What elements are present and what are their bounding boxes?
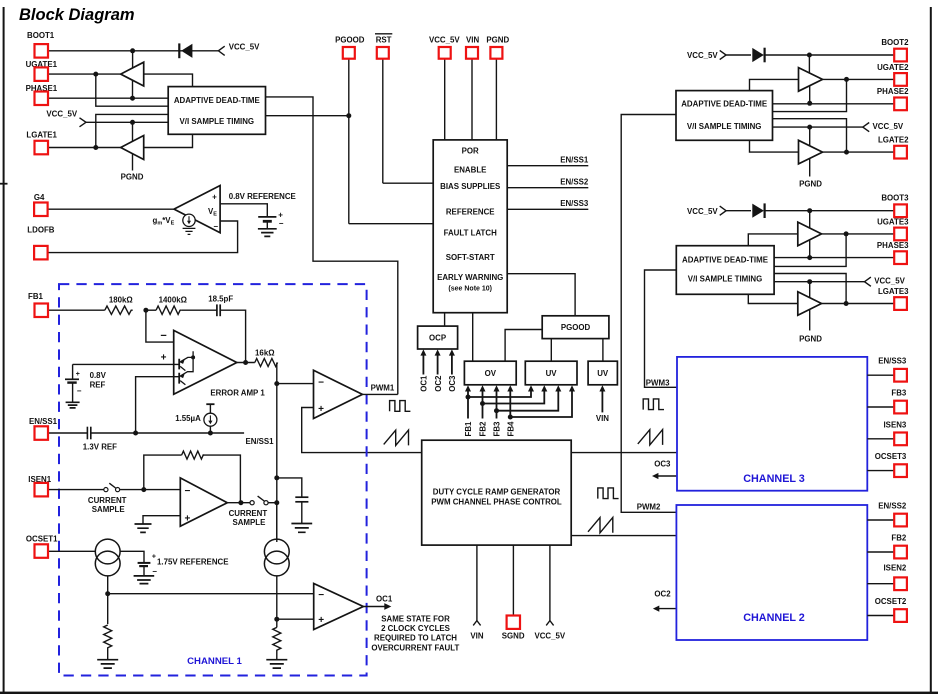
svg-text:VCC_5V: VCC_5V (687, 207, 718, 216)
channel 1 dashed boundary (59, 284, 367, 675)
arrow VIN into UV block (596, 385, 609, 423)
diode D2 boot (726, 48, 765, 63)
svg-text:−: − (152, 567, 157, 576)
arrow OC2 out of channel2 (653, 590, 677, 612)
wire to PWM1 comparator minus (277, 383, 314, 385)
supply stub VIN below duty block (470, 545, 483, 640)
net EN/SS1 output (507, 156, 589, 166)
wire UGATE1 feedback into dead-time1 (96, 74, 168, 106)
wire error amp output node chain (237, 362, 255, 364)
wire driver3 lower input (748, 294, 798, 303)
svg-text:OC3: OC3 (448, 375, 457, 392)
buffer upper gate driver 3 (798, 222, 822, 246)
pin UGATE1 (26, 60, 121, 81)
svg-text:1.3V REF: 1.3V REF (83, 443, 117, 452)
pin EN/SS3 (867, 357, 907, 382)
wire PHASE3 to driver3 bottom (809, 240, 811, 258)
svg-text:BIAS SUPPLIES: BIAS SUPPLIES (440, 182, 500, 191)
svg-text:RST: RST (376, 35, 392, 44)
icon square wave pwm3 (643, 399, 664, 410)
svg-text:PWM CHANNEL PHASE CONTROL: PWM CHANNEL PHASE CONTROL (431, 498, 562, 507)
transistor pair clamp inside error amp (179, 351, 195, 385)
wire RST pin to POR bias supplies (383, 182, 433, 184)
pin FB1 (28, 292, 105, 317)
block U_UV_VIN (588, 361, 617, 385)
pin UGATE3 (822, 217, 910, 240)
wire BOOT1 to driver top (132, 51, 134, 69)
wire OCSET source to 1.75V reference (120, 551, 144, 563)
block U_DUTY (duty cycle ramp generator) (422, 440, 572, 545)
svg-text:SAMPLE: SAMPLE (232, 518, 265, 527)
supply chevron VCC_5V boot2 (687, 50, 726, 60)
svg-text:BOOT3: BOOT3 (881, 194, 909, 203)
net EN/SS3 output (507, 199, 589, 209)
svg-text:FB1: FB1 (464, 421, 473, 437)
wire PGOOD block to UV vin block (602, 339, 604, 362)
svg-text:180kΩ: 180kΩ (109, 296, 133, 305)
supply chevron VCC_5V lower driver2 (863, 122, 904, 132)
pin OCSET3 (867, 452, 907, 477)
arrow OC1 into OCP (420, 349, 429, 391)
svg-text:EN/SS3: EN/SS3 (878, 357, 907, 366)
net OCSET1 comparator minus row (107, 576, 109, 624)
svg-text:−: − (77, 386, 82, 395)
pin VIN (top) (466, 35, 479, 140)
svg-text:SAME STATE FOR: SAME STATE FOR (381, 614, 450, 623)
node UGATE2 junction (844, 77, 849, 82)
resistor 1400k (156, 296, 187, 315)
svg-text:V/I SAMPLE TIMING: V/I SAMPLE TIMING (688, 275, 763, 284)
wire VCC_5V to lower driver top (132, 122, 134, 141)
svg-text:VCC_5V: VCC_5V (46, 109, 77, 118)
svg-text:LGATE2: LGATE2 (878, 136, 909, 145)
svg-text:VIN: VIN (466, 35, 479, 44)
svg-text:1400kΩ: 1400kΩ (159, 296, 187, 305)
resistor 16k (255, 348, 278, 366)
wire switch to ISEN amp minus (120, 489, 181, 491)
pin BOOT1 (27, 31, 218, 57)
svg-text:ISEN2: ISEN2 (883, 563, 906, 572)
wire EARLY WARNING to PGOOD block (507, 274, 575, 316)
wire ISEN amp plus to ground (143, 516, 180, 524)
pin FB3 (867, 389, 907, 414)
svg-text:LDOFB: LDOFB (27, 225, 54, 234)
switch current sample output (229, 496, 268, 527)
current source OCSET1 (95, 539, 120, 576)
svg-text:V/I SAMPLE TIMING: V/I SAMPLE TIMING (180, 117, 255, 126)
page frame bottom border (0, 692, 938, 694)
diode D1 boot (179, 43, 192, 58)
pin OCSET2 (867, 597, 907, 622)
wire UGATE2 feedback into dead-time2 (773, 79, 847, 111)
pin EN/SS2 (867, 502, 907, 527)
wire VCC_5V to lower driver3 (809, 282, 811, 298)
supply chevron VCC_5V boot3 (687, 206, 726, 216)
svg-text:16kΩ: 16kΩ (255, 348, 275, 357)
svg-text:PGND: PGND (121, 172, 144, 181)
wire ramp to PWM1 comparator (302, 408, 422, 453)
node UGATE1 junction (93, 72, 98, 77)
pin BOOT2 (764, 38, 909, 62)
svg-text:1.75V REFERENCE: 1.75V REFERENCE (157, 557, 228, 566)
block U_OCP (418, 326, 458, 349)
buffer upper gate driver 1 (121, 62, 144, 86)
svg-text:REQUIRED TO LATCH: REQUIRED TO LATCH (374, 634, 457, 643)
wire POR to OCP (444, 313, 446, 326)
svg-text:PGND: PGND (799, 179, 822, 188)
svg-text:0.8V: 0.8V (90, 371, 107, 380)
svg-text:FB1: FB1 (28, 292, 44, 301)
svg-text:+: + (278, 211, 283, 220)
ground ISEN amp plus (135, 524, 152, 532)
resistor 180k (105, 296, 133, 315)
svg-text:ENABLE: ENABLE (454, 166, 486, 175)
svg-text:CURRENT: CURRENT (88, 496, 127, 505)
page frame left border (3, 7, 5, 694)
pin BOOT3 (764, 194, 909, 218)
svg-text:+: + (184, 513, 190, 524)
block U_PGOOD (542, 316, 609, 339)
wire dead-time1 output to PWM1 column (266, 97, 398, 395)
svg-text:0.8V REFERENCE: 0.8V REFERENCE (229, 192, 296, 201)
wire PHASE1 to driver bottom (132, 80, 134, 98)
svg-text:18.5pF: 18.5pF (208, 295, 233, 304)
node LGATE3 junction (844, 301, 849, 306)
svg-text:PWM1: PWM1 (371, 383, 395, 392)
node junction on PGOOD line (346, 113, 351, 118)
node VCC_5V driver3 junction (807, 279, 812, 284)
svg-text:CHANNEL 2: CHANNEL 2 (743, 612, 805, 624)
svg-text:EN/SS1: EN/SS1 (560, 156, 589, 165)
wire R 1400k to cap (181, 309, 217, 311)
svg-text:REF: REF (90, 380, 106, 389)
node VCC_5V driver2 junction (807, 125, 812, 130)
battery 1.75V reference (138, 553, 229, 576)
block U_POR (POR/ENABLE/BIAS SUPPLIES/REFERENCE/FAULT LATCH/SOFT-START/EARLY WARNING) (433, 140, 507, 313)
wire ramp3 from duty block to channel3 (571, 452, 676, 454)
svg-text:PGOOD: PGOOD (335, 35, 365, 44)
pin G4 (34, 193, 174, 216)
wire PGOOD block to OV block (505, 330, 542, 362)
net PWM3 from channel3 to dead-time3 (645, 270, 677, 388)
svg-text:LGATE1: LGATE1 (26, 130, 57, 139)
node BOOT2 junction (807, 53, 812, 58)
node PHASE1 junction (130, 96, 135, 101)
node LGATE2 junction (844, 150, 849, 155)
svg-text:OVERCURRENT FAULT: OVERCURRENT FAULT (371, 643, 459, 652)
op-amp ISEN sample amp (180, 478, 227, 526)
svg-text:CHANNEL 1: CHANNEL 1 (187, 656, 242, 667)
net PWM1 output (362, 383, 397, 394)
current source 1.55uA (175, 404, 217, 433)
svg-text:PHASE3: PHASE3 (877, 241, 909, 250)
block U_DT2 (adaptive dead-time 2) (676, 91, 773, 141)
wire PHASE2 to driver2 bottom (809, 86, 811, 104)
svg-text:Block Diagram: Block Diagram (19, 6, 135, 24)
svg-text:POR: POR (462, 146, 479, 155)
net FB4 into OV and UV (507, 385, 576, 436)
svg-text:PGND: PGND (799, 334, 822, 343)
svg-text:UGATE2: UGATE2 (877, 63, 909, 72)
svg-text:CURRENT: CURRENT (229, 509, 268, 518)
wire VCC_5V to lower driver2 (809, 127, 811, 146)
wire LGATE3 feedback into dead-time3 (774, 274, 846, 304)
pin LGATE1 (26, 130, 120, 154)
svg-text:DUTY CYCLE RAMP GENERATOR: DUTY CYCLE RAMP GENERATOR (433, 488, 561, 497)
wire BOOT2 to driver2 top (808, 55, 810, 73)
svg-text:−: − (279, 219, 284, 228)
comparator PWM1 (314, 370, 363, 418)
svg-text:OV: OV (485, 369, 497, 378)
svg-text:EARLY WARNING: EARLY WARNING (437, 273, 503, 282)
feedback resistor ISEN amp (144, 451, 241, 503)
ground sample lower (266, 660, 287, 668)
arrow OC1 output (363, 595, 393, 610)
node UGATE3 junction (844, 231, 849, 236)
svg-text:VIN: VIN (470, 631, 483, 640)
svg-text:OC2: OC2 (654, 590, 671, 599)
pin ISEN2 (867, 563, 907, 590)
net VCC_5V row driver2 (773, 126, 863, 128)
pin PGOOD (top) (335, 35, 365, 223)
svg-text:V/I SAMPLE TIMING: V/I SAMPLE TIMING (687, 122, 762, 131)
ground sample hold cap (291, 524, 312, 533)
svg-text:FB2: FB2 (479, 421, 488, 437)
svg-text:EN/SS1: EN/SS1 (29, 417, 58, 426)
wire driver3 upper input (748, 234, 798, 246)
wire dead-time1 sample line to PGOOD net (266, 115, 349, 117)
pin VCC_5V (top) (429, 35, 460, 140)
net FB3 into OV and UV (493, 385, 562, 436)
wire G4 amp plus input to reference (220, 204, 267, 217)
note text overcurrent latch (371, 614, 459, 652)
svg-text:+: + (76, 371, 80, 378)
wire node A to R 1400k (146, 309, 156, 311)
ground OCSET1 (97, 660, 118, 668)
node LGATE1 junction (93, 145, 98, 150)
wire PGND stub driver1 (132, 154, 134, 171)
svg-text:OC2: OC2 (434, 375, 443, 392)
wire ramp2 from duty block to channel2 (571, 535, 676, 537)
net sample comparator plus row (276, 576, 278, 628)
net FB2 into OV and UV (479, 385, 548, 436)
pin UGATE2 (823, 63, 910, 86)
supply stub VCC_5V below duty block (534, 545, 565, 640)
svg-text:FAULT LATCH: FAULT LATCH (444, 229, 497, 238)
svg-text:+: + (318, 615, 324, 626)
supply chevron VCC_5V boot1 (218, 42, 260, 55)
svg-text:LGATE3: LGATE3 (878, 287, 909, 296)
wire comp node vertical (276, 363, 278, 543)
svg-text:CHANNEL 3: CHANNEL 3 (743, 473, 805, 485)
capacitor sample hold (295, 497, 308, 523)
svg-text:ADAPTIVE DEAD-TIME: ADAPTIVE DEAD-TIME (681, 100, 767, 109)
block CHANNEL 2 (676, 505, 867, 640)
net VCC_5V row driver3 (774, 281, 864, 283)
net FB1 into OV and UV (464, 385, 534, 436)
svg-text:VCC_5V: VCC_5V (687, 51, 718, 60)
pin SGND below duty block (502, 545, 525, 640)
svg-text:VCC_5V: VCC_5V (429, 35, 460, 44)
svg-text:REFERENCE: REFERENCE (446, 207, 495, 216)
svg-text:+: + (318, 404, 324, 415)
ground below 1.75V reference (134, 576, 155, 584)
svg-text:OCSET2: OCSET2 (875, 597, 907, 606)
svg-text:PGND: PGND (486, 35, 509, 44)
svg-text:VCC_5V: VCC_5V (873, 122, 904, 131)
pin FB2 (867, 534, 907, 559)
svg-text:OC3: OC3 (654, 460, 671, 469)
wire PGND stub driver3 (809, 310, 811, 331)
net PWM2 from channel2 to dead-time2 (621, 115, 676, 513)
icon square wave pwm1 (390, 401, 411, 412)
svg-text:−: − (184, 486, 190, 497)
svg-text:FB3: FB3 (493, 421, 502, 437)
svg-text:EN/SS1: EN/SS1 (246, 437, 275, 446)
current source ISEN ratio (264, 503, 289, 576)
svg-text:UV: UV (597, 369, 609, 378)
node VCC_5V junction (130, 120, 135, 125)
svg-text:SGND: SGND (502, 631, 525, 640)
svg-text:1.55µA: 1.55µA (175, 414, 201, 423)
wire driver1 upper output (144, 74, 193, 87)
svg-text:+: + (161, 352, 167, 363)
pin PHASE3 (774, 241, 909, 264)
svg-text:−: − (213, 222, 218, 231)
ground below gm source (183, 228, 196, 234)
arrow OC3 into OCP (448, 349, 457, 391)
pin RST (top, active low) (375, 34, 392, 183)
pin EN/SS1 (29, 417, 87, 440)
wire switch to sample node (268, 502, 277, 504)
svg-text:BOOT2: BOOT2 (881, 38, 909, 47)
svg-text:ISEN3: ISEN3 (883, 420, 906, 429)
wire cap to error amp output (220, 310, 245, 362)
svg-text:PGOOD: PGOOD (561, 323, 591, 332)
svg-text:EN/SS2: EN/SS2 (560, 178, 589, 187)
svg-text:ADAPTIVE DEAD-TIME: ADAPTIVE DEAD-TIME (174, 96, 260, 105)
block U_DT1 (adaptive dead-time 1) (168, 87, 265, 135)
arrow OC2 into OCP (434, 349, 443, 391)
pin PGND (top) (486, 35, 509, 140)
net EN/SS1 row (91, 432, 244, 434)
svg-text:VCC_5V: VCC_5V (534, 631, 565, 640)
wire PGND stub driver2 (809, 158, 811, 176)
svg-text:+: + (212, 193, 217, 202)
icon sawtooth ramp2 (588, 517, 613, 532)
supply chevron VCC_5V lower driver3 (865, 277, 906, 287)
svg-text:VCC_5V: VCC_5V (229, 42, 260, 51)
svg-text:−: − (318, 377, 324, 388)
pin LGATE3 (822, 287, 910, 310)
svg-text:BOOT1: BOOT1 (27, 31, 55, 40)
svg-text:OCSET3: OCSET3 (875, 452, 907, 461)
diode D3 boot (726, 203, 765, 218)
svg-text:OC1: OC1 (376, 595, 393, 604)
wire G4 amp minus input to LDOFB (48, 221, 238, 253)
page frame right border (930, 7, 932, 694)
icon sawtooth ramp1 (384, 430, 409, 445)
block U_DT3 (adaptive dead-time 3) (676, 246, 774, 295)
buffer upper gate driver 2 (799, 68, 823, 92)
net EN/SS2 output (507, 178, 589, 188)
capacitor 18.5pF (208, 295, 233, 317)
capacitor 1.3V REF (83, 427, 117, 452)
svg-text:PWM2: PWM2 (637, 503, 661, 512)
wire driver2 lower input (750, 140, 799, 152)
svg-text:FB2: FB2 (891, 534, 907, 543)
resistor sample lower (273, 627, 281, 660)
wire driver2 upper input (750, 79, 799, 90)
svg-text:SOFT-START: SOFT-START (446, 253, 495, 262)
svg-text:OCSET1: OCSET1 (26, 535, 58, 544)
wire LGATE2 feedback into dead-time2 (773, 119, 847, 152)
svg-text:EN/SS2: EN/SS2 (878, 502, 907, 511)
svg-text:OC1: OC1 (420, 375, 429, 392)
resistor OCSET1 lower (104, 625, 112, 660)
battery 0.8V REF (65, 364, 107, 402)
svg-text:ERROR AMP 1: ERROR AMP 1 (210, 388, 265, 397)
svg-text:FB3: FB3 (891, 389, 907, 398)
pin LDOFB (27, 225, 54, 259)
ground below 0.8V REF (66, 402, 80, 408)
node BOOT3 junction (807, 208, 812, 213)
wire PGOOD block to UV block (550, 339, 552, 362)
wire PGOOD pin to POR fault latch (349, 223, 433, 225)
wire EN/SS1 clamp into amp (136, 377, 180, 433)
svg-text:VIN: VIN (596, 414, 609, 423)
supply chevron VCC_5V lower driver1 (46, 109, 86, 126)
svg-text:SAMPLE: SAMPLE (92, 505, 125, 514)
svg-text:UGATE3: UGATE3 (877, 217, 909, 226)
wire BOOT3 to driver3 top (809, 211, 811, 228)
svg-text:PWM3: PWM3 (646, 379, 670, 388)
svg-text:(see Note 10): (see Note 10) (448, 286, 492, 293)
page frame left tick (0, 183, 8, 185)
icon square wave pwm2 (598, 488, 619, 499)
wire ISEN amp output (227, 502, 250, 504)
current source gm*VE (153, 214, 196, 226)
block CHANNEL 3 (677, 357, 867, 491)
switch current sample input (88, 483, 127, 514)
pin PHASE2 (773, 87, 910, 110)
svg-text:PHASE2: PHASE2 (877, 87, 909, 96)
node A junction (143, 308, 148, 313)
node PHASE3 junction (807, 255, 812, 260)
svg-text:+: + (152, 553, 156, 560)
wire POR to OV (472, 313, 474, 362)
pin ISEN1 (28, 475, 104, 497)
op-amp ERROR AMP 1 (160, 330, 265, 397)
svg-text:−: − (160, 330, 166, 342)
wire driver1 lower input (144, 134, 193, 147)
pin ISEN3 (867, 420, 907, 445)
svg-text:OCP: OCP (429, 334, 446, 343)
block U_OV (464, 361, 516, 385)
pin OCSET1 (26, 535, 96, 558)
buffer lower gate driver 1 (121, 136, 144, 160)
wire VCC_5V row into dead-time1 (86, 121, 168, 123)
wire sample hold cap branch (277, 478, 302, 497)
wire LGATE1 feedback into dead-time1 (96, 114, 168, 147)
icon sawtooth ramp3 (638, 430, 663, 445)
node PHASE2 junction (807, 101, 812, 106)
battery 0.8V reference (258, 211, 284, 229)
wire UGATE3 feedback into dead-time3 (774, 234, 846, 267)
svg-text:−: − (318, 590, 324, 601)
wire error amp plus input (73, 363, 180, 365)
svg-text:UV: UV (546, 369, 558, 378)
